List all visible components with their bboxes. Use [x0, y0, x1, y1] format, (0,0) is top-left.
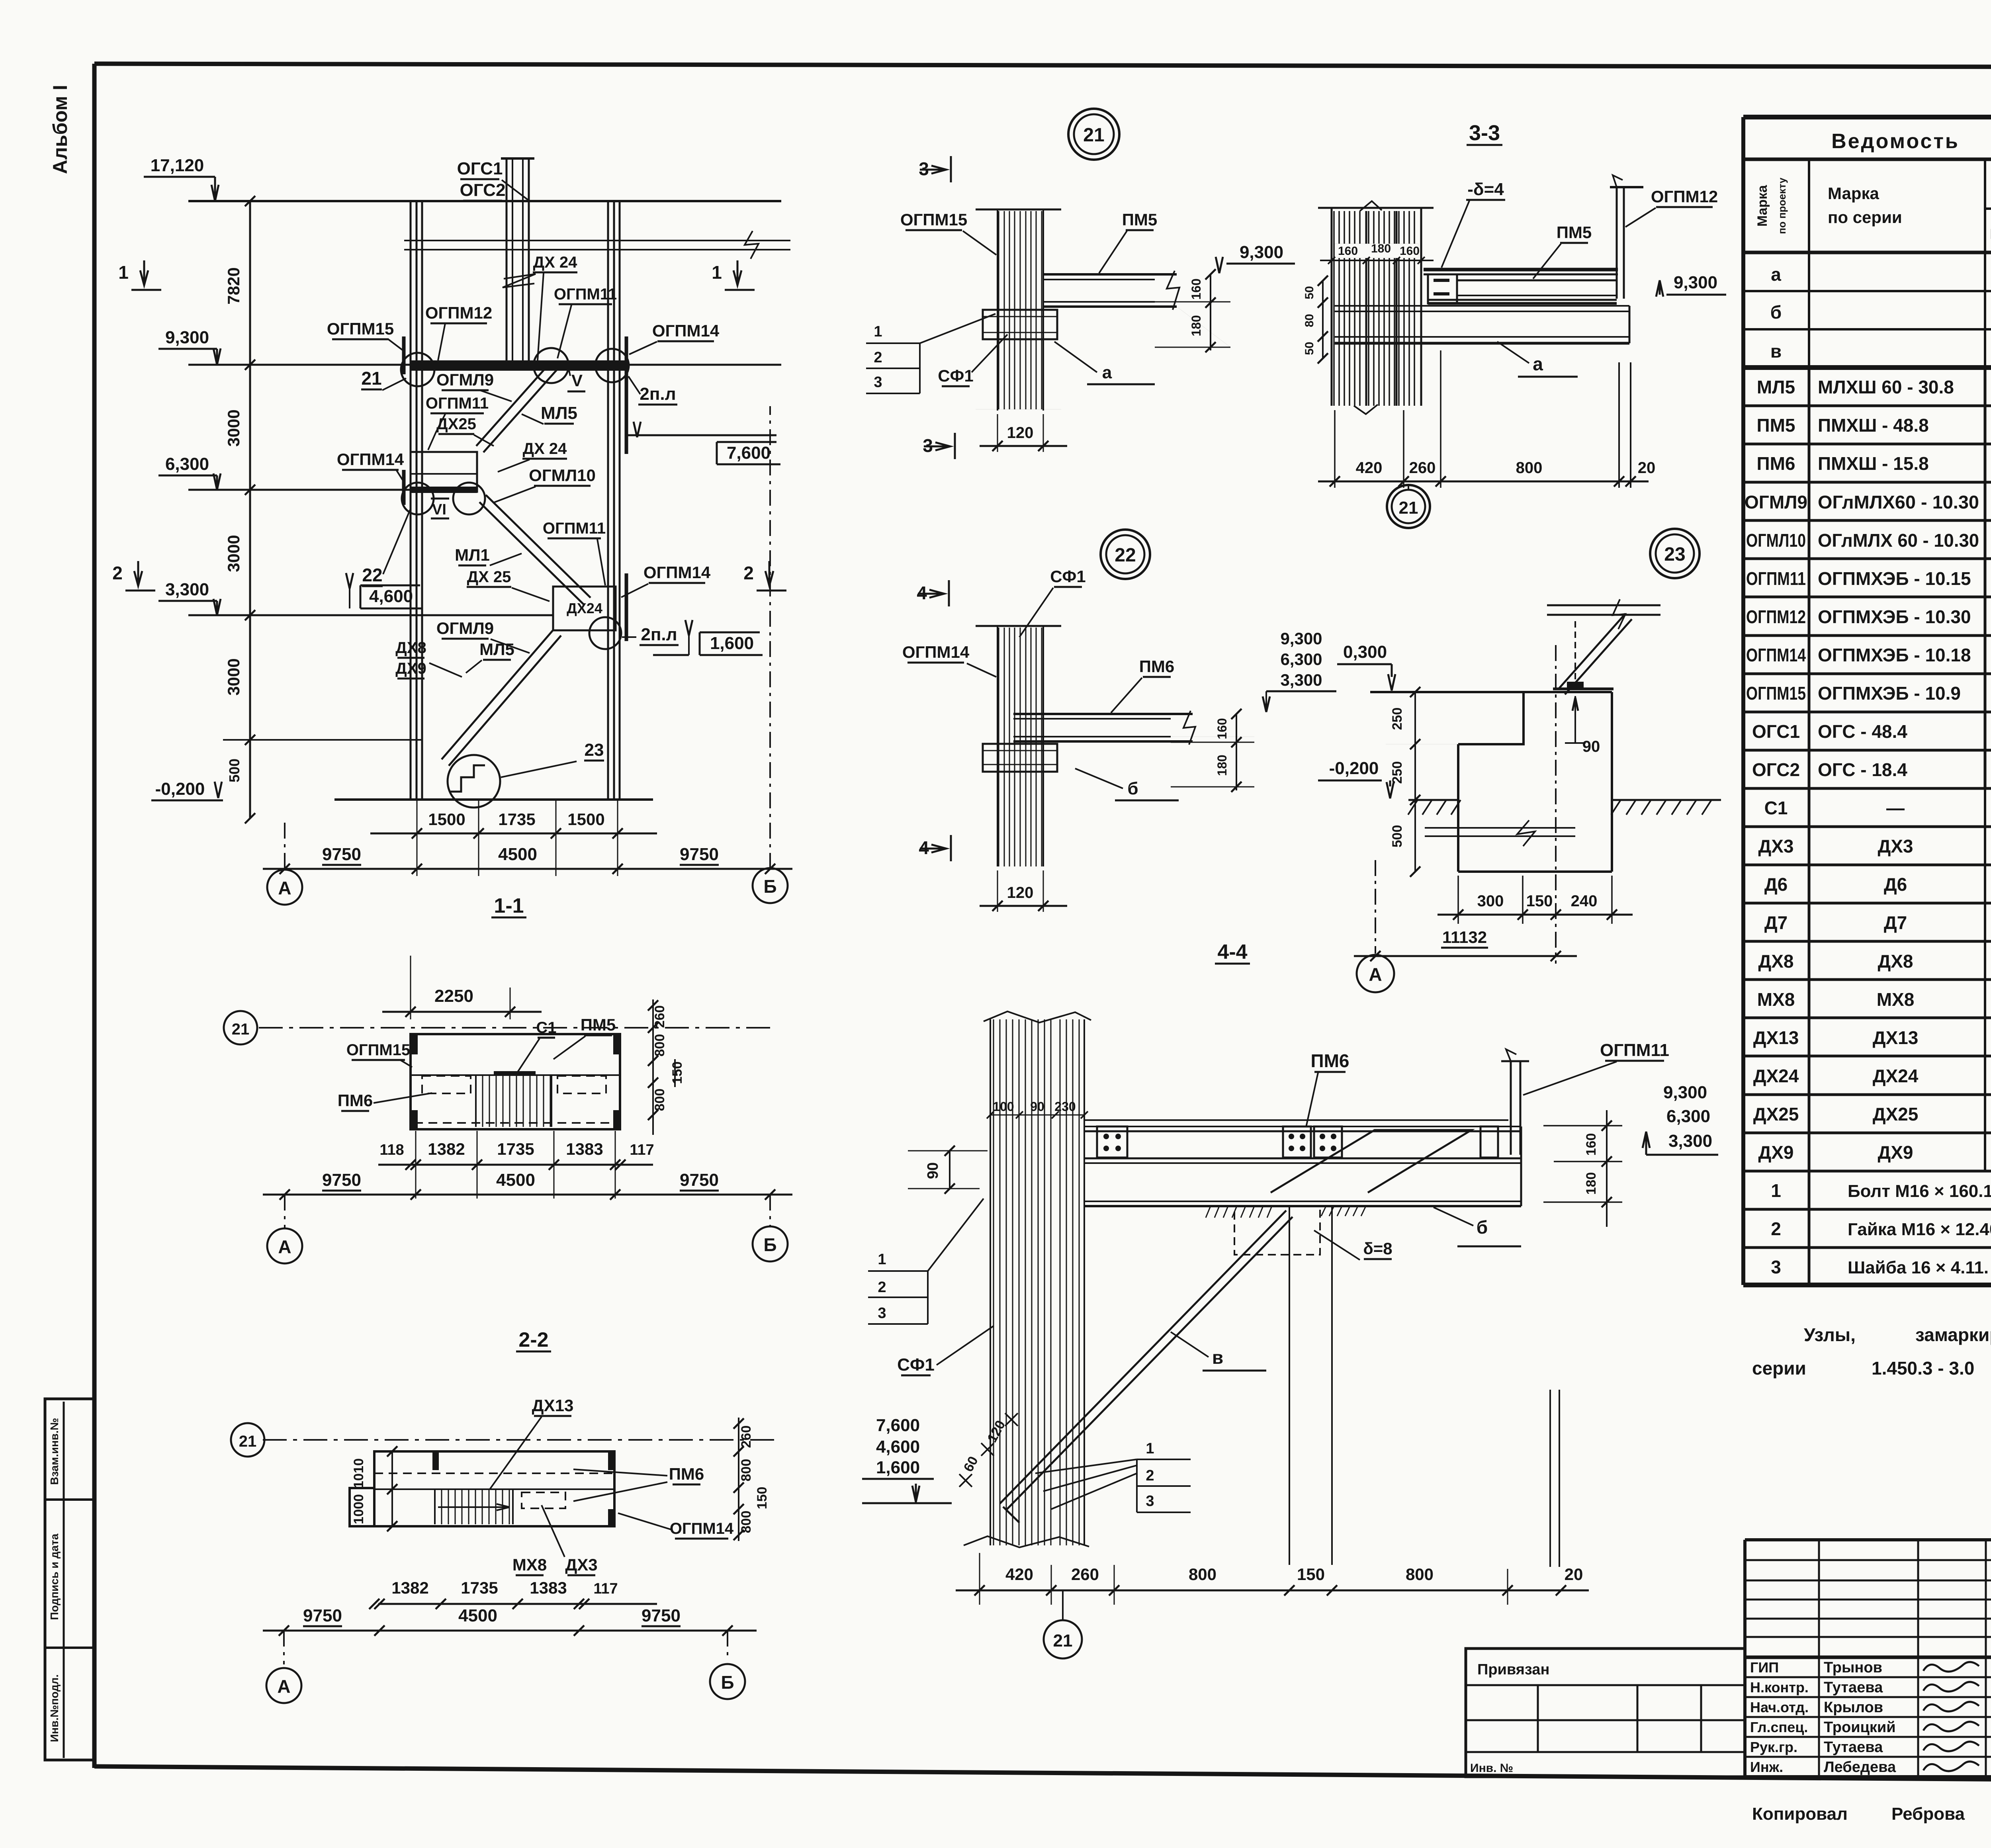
right rotated dims 260/800/150/800 [652, 999, 654, 1135]
svg-text:ОГПМ12: ОГПМ12 [425, 303, 492, 322]
right rotated dims (2-2) [738, 1418, 739, 1541]
right bracket ОГПМ12 (3-3) [1616, 187, 1618, 299]
grid bubble 21 (4-4) [1062, 1590, 1064, 1620]
svg-text:Д6: Д6 [1884, 874, 1907, 895]
svg-text:Привязан: Привязан [1477, 1661, 1549, 1678]
svg-text:Ведомость: Ведомость [1831, 130, 1960, 153]
svg-text:11132: 11132 [1442, 928, 1487, 946]
svg-text:б: б [1477, 1217, 1488, 1238]
svg-text:9,300: 9,300 [1240, 242, 1283, 262]
svg-text:ДХ24: ДХ24 [567, 600, 602, 616]
svg-text:ОГПМ11: ОГПМ11 [543, 520, 606, 537]
svg-text:ДХ9: ДХ9 [1758, 1142, 1793, 1163]
table row ОГПМ14 [1743, 673, 1991, 675]
svg-text:21: 21 [239, 1433, 257, 1450]
svg-text:500: 500 [226, 759, 243, 782]
knot circle 2п.л low [589, 617, 621, 649]
thick divider [1745, 1656, 1991, 1659]
svg-text:ОГПМХЭБ - 10.30: ОГПМХЭБ - 10.30 [1818, 606, 1971, 627]
svg-text:ДХ 24: ДХ 24 [523, 440, 567, 458]
svg-text:ОГлМЛХ60 - 10.30: ОГлМЛХ60 - 10.30 [1818, 492, 1979, 512]
svg-text:50: 50 [1303, 342, 1316, 355]
svg-text:1: 1 [712, 262, 722, 283]
svg-text:ОГПМ15: ОГПМ15 [346, 1041, 410, 1059]
svg-text:7,600: 7,600 [876, 1416, 920, 1435]
svg-text:ДХ25: ДХ25 [1753, 1104, 1799, 1124]
beam ПМ5 (detail 21) [1043, 273, 1177, 276]
svg-text:Гайка М16 × 12.40Х.016: Гайка М16 × 12.40Х.016 ГОСТ 5915-70* [1848, 1220, 1991, 1239]
svg-text:50: 50 [1303, 286, 1316, 299]
svg-text:ОГМЛ9: ОГМЛ9 [436, 619, 494, 638]
svg-text:150: 150 [1297, 1565, 1325, 1584]
svg-text:ДХ25: ДХ25 [1873, 1104, 1919, 1124]
svg-text:1735: 1735 [498, 810, 535, 829]
svg-text:800: 800 [1516, 459, 1543, 477]
column lattice (detail 21) [976, 209, 1061, 211]
grid bubble А [267, 870, 302, 905]
svg-text:ОГМЛ9: ОГМЛ9 [436, 370, 494, 389]
pedestal top level line [1370, 691, 1524, 693]
svg-text:90: 90 [1030, 1099, 1044, 1114]
svg-text:1,600: 1,600 [710, 634, 754, 653]
svg-text:ОГПМ14: ОГПМ14 [337, 450, 404, 469]
svg-text:в: в [1212, 1347, 1223, 1368]
svg-text:3000: 3000 [224, 535, 243, 572]
svg-text:3: 3 [874, 374, 882, 391]
table title row [1743, 158, 1991, 161]
svg-text:ПМ5: ПМ5 [1122, 210, 1158, 229]
svg-text:150: 150 [670, 1062, 685, 1084]
svg-text:МХ8: МХ8 [1877, 989, 1915, 1010]
svg-text:ОГС1: ОГС1 [457, 159, 503, 178]
svg-text:2: 2 [878, 1279, 886, 1296]
svg-text:ДХ8: ДХ8 [395, 639, 426, 657]
svg-text:1383: 1383 [566, 1140, 603, 1158]
svg-text:ОГПМ14: ОГПМ14 [670, 1520, 734, 1537]
svg-text:300: 300 [1477, 892, 1504, 910]
svg-text:2250: 2250 [434, 986, 473, 1006]
svg-text:по серии: по серии [1828, 208, 1902, 227]
svg-text:ПМ6: ПМ6 [1757, 453, 1795, 474]
svg-text:20: 20 [1638, 459, 1656, 477]
svg-text:серии: серии [1752, 1358, 1806, 1379]
svg-text:VI: VI [432, 501, 446, 518]
stair flight МЛ1 (6.3 to 3.3) [479, 502, 584, 605]
svg-text:2: 2 [874, 349, 882, 366]
svg-text:1735: 1735 [497, 1140, 534, 1158]
svg-text:-0,200: -0,200 [155, 779, 205, 799]
svg-text:800: 800 [1406, 1565, 1434, 1584]
table row ПМ6 [1743, 481, 1991, 484]
sheet frame [94, 64, 1991, 68]
svg-text:2п.л: 2п.л [641, 625, 677, 644]
svg-text:ОГлМЛХ 60 - 10.30: ОГлМЛХ 60 - 10.30 [1818, 530, 1979, 551]
svg-text:21: 21 [1083, 125, 1104, 146]
svg-text:ДХ8: ДХ8 [1878, 951, 1913, 972]
svg-text:МЛХШ 60 - 30.8: МЛХШ 60 - 30.8 [1818, 377, 1954, 397]
bracket ОГПМ14 at column B level 9.3 [625, 336, 628, 454]
detail bubble 22 [1101, 530, 1150, 579]
grid line 21 (2-2) [263, 1439, 776, 1441]
svg-text:ДХ9: ДХ9 [395, 660, 426, 677]
concrete pedestal [1458, 692, 1612, 744]
axis dash-dot through pedestal [1555, 645, 1557, 964]
svg-text:замаркированные: замаркированные [1915, 1324, 1991, 1345]
svg-text:а: а [1533, 354, 1543, 374]
svg-text:1: 1 [1771, 1180, 1781, 1201]
bottom dims (2-2) [378, 1603, 657, 1605]
svg-text:1382: 1382 [391, 1578, 428, 1597]
right bracket ОГПМ11 (4-4) [1510, 1061, 1512, 1155]
elevation: level line 17,120 [188, 200, 781, 202]
dims 9750/4500/9750 (2-2) [263, 1630, 757, 1632]
svg-text:21: 21 [361, 368, 381, 389]
svg-text:180: 180 [1189, 315, 1203, 336]
floor line [1084, 1119, 1508, 1121]
svg-text:Лебедева: Лебедева [1824, 1759, 1896, 1776]
svg-text:ДХ13: ДХ13 [1873, 1027, 1919, 1048]
svg-text:420: 420 [1005, 1565, 1033, 1584]
title block outer [1745, 1538, 1991, 1541]
svg-text:ОГПМ11: ОГПМ11 [1600, 1040, 1669, 1060]
svg-text:ОГМЛ9: ОГМЛ9 [1745, 492, 1807, 512]
svg-text:С1: С1 [1764, 798, 1788, 818]
svg-text:9750: 9750 [680, 845, 719, 864]
svg-text:ДХ9: ДХ9 [1878, 1142, 1913, 1163]
table row 2 [1743, 1246, 1991, 1249]
table row ДХ8 [1743, 978, 1991, 981]
svg-text:Марка: Марка [1755, 185, 1770, 227]
svg-text:160: 160 [1189, 278, 1203, 299]
landing at 6,300 [411, 452, 477, 492]
svg-text:Подпись и дата: Подпись и дата [48, 1533, 61, 1620]
svg-text:1500: 1500 [428, 810, 465, 829]
signature rows [1745, 1676, 1991, 1678]
svg-text:1500: 1500 [567, 810, 604, 829]
svg-text:1: 1 [878, 1251, 886, 1268]
svg-text:180: 180 [1584, 1172, 1599, 1195]
svg-text:260: 260 [652, 1005, 667, 1028]
landing plate C1 [494, 1071, 536, 1075]
svg-text:80: 80 [1303, 314, 1316, 327]
svg-text:240: 240 [1571, 892, 1598, 910]
table row ОГПМ11 [1743, 596, 1991, 598]
svg-text:Нач.отд.: Нач.отд. [1750, 1699, 1809, 1715]
stair stringer arriving (d23) [1547, 614, 1660, 616]
svg-text:ОГПМ12: ОГПМ12 [1651, 187, 1718, 206]
hidden beams dashed [422, 1076, 471, 1093]
svg-text:Б: Б [721, 1672, 734, 1693]
svg-text:4,600: 4,600 [369, 587, 413, 606]
svg-text:ОГС2: ОГС2 [1752, 759, 1800, 780]
ground level [334, 798, 653, 801]
svg-text:ДХ 24: ДХ 24 [533, 254, 578, 271]
dim 120 (d21) [997, 414, 998, 452]
collar СФ1 [983, 310, 1057, 339]
column lattice (d22) [976, 625, 1061, 627]
svg-text:ОГПМ14: ОГПМ14 [902, 643, 970, 661]
stair treads (2-2) [434, 1490, 436, 1524]
svg-text:Б: Б [763, 1234, 776, 1255]
svg-text:7820: 7820 [224, 267, 243, 304]
svg-text:ДХ3: ДХ3 [1758, 836, 1793, 857]
svg-text:ОГПМ15: ОГПМ15 [327, 319, 394, 338]
table row ДХ13 [1743, 1055, 1991, 1058]
detail bubble 23 [1650, 529, 1700, 578]
bracket at column B 3.3 [625, 573, 628, 641]
svg-text:2-2: 2-2 [518, 1328, 548, 1351]
stair flight МЛ5 (3.3 to base) [442, 629, 554, 759]
svg-text:2п.л: 2п.л [640, 384, 676, 404]
svg-text:ОГПМХЭБ - 10.18: ОГПМХЭБ - 10.18 [1818, 645, 1971, 665]
svg-text:1: 1 [1146, 1440, 1154, 1457]
svg-text:1: 1 [874, 323, 882, 340]
svg-text:260: 260 [739, 1426, 754, 1448]
svg-text:250: 250 [1390, 761, 1405, 784]
svg-text:180: 180 [1371, 242, 1391, 255]
svg-text:ДХ13: ДХ13 [532, 1396, 574, 1415]
svg-text:МХ8: МХ8 [1757, 989, 1795, 1010]
svg-text:ОГМЛ10: ОГМЛ10 [529, 466, 596, 485]
svg-text:СФ1: СФ1 [1050, 567, 1086, 586]
table row ДХ25 [1743, 1132, 1991, 1134]
svg-text:150: 150 [1526, 892, 1553, 910]
svg-text:А: А [277, 1676, 290, 1697]
tread arrow [438, 1506, 510, 1508]
table row ОГМЛ9 [1743, 519, 1991, 522]
svg-text:Крылов: Крылов [1824, 1699, 1883, 1716]
base plate on pedestal [1553, 688, 1614, 690]
svg-text:ОГПМ14: ОГПМ14 [652, 321, 720, 340]
svg-text:-δ=4: -δ=4 [1467, 180, 1504, 199]
svg-text:4500: 4500 [498, 845, 537, 864]
svg-text:160: 160 [1400, 244, 1420, 258]
landing box ДХ24 at 3,300 [553, 587, 616, 630]
grid bubble А (2-2) [283, 1631, 285, 1664]
svg-text:-0,200: -0,200 [1329, 759, 1379, 778]
plan outline 2-2 [374, 1451, 614, 1526]
svg-text:500: 500 [1390, 825, 1405, 848]
svg-text:21: 21 [1053, 1631, 1073, 1650]
svg-text:260: 260 [1071, 1565, 1099, 1584]
svg-text:ОГПМ14: ОГПМ14 [1746, 645, 1806, 665]
svg-text:4500: 4500 [496, 1170, 535, 1190]
bottom dims 300/150/240 (d23) [1457, 876, 1459, 924]
bolt plates [1097, 1126, 1127, 1158]
table row ДХ9 [1743, 1170, 1991, 1173]
anchor lines below ground [1425, 827, 1575, 829]
svg-text:2: 2 [743, 563, 754, 583]
svg-text:3,300: 3,300 [1668, 1131, 1712, 1151]
svg-text:Инж.: Инж. [1750, 1759, 1783, 1775]
left rotated dims 250/250/500 (d23) [1414, 692, 1416, 872]
svg-text:Трынов: Трынов [1824, 1659, 1882, 1676]
svg-text:Рук.гр.: Рук.гр. [1750, 1739, 1797, 1755]
svg-text:3-3: 3-3 [1469, 121, 1500, 145]
svg-text:160: 160 [1584, 1133, 1599, 1156]
svg-text:150: 150 [755, 1487, 770, 1510]
svg-text:1: 1 [118, 262, 129, 283]
svg-text:800: 800 [739, 1459, 754, 1482]
svg-text:1-1: 1-1 [494, 894, 524, 917]
svg-text:6,300: 6,300 [165, 454, 209, 474]
svg-text:1000: 1000 [351, 1494, 366, 1524]
table row ОГПМ15 [1743, 711, 1991, 714]
grid bubble А (1-1) [267, 1228, 302, 1263]
svg-text:Инв.№подл.: Инв.№подл. [48, 1674, 61, 1742]
svg-text:2: 2 [112, 563, 123, 583]
table row С1 [1743, 825, 1991, 828]
svg-text:1,600: 1,600 [876, 1458, 920, 1477]
dims 160 180 160 (3-3) [1335, 244, 1418, 258]
rows а б в [1743, 290, 1991, 292]
table row ПМ5 [1743, 443, 1991, 446]
svg-text:А: А [278, 878, 291, 898]
column A (left, lattice) [410, 201, 412, 798]
knot circle 22 [402, 483, 434, 514]
svg-text:3: 3 [878, 1305, 886, 1322]
svg-text:ОГС - 18.4: ОГС - 18.4 [1818, 759, 1907, 780]
svg-text:Марка: Марка [1828, 184, 1880, 203]
svg-text:9750: 9750 [642, 1606, 681, 1625]
svg-text:а: а [1102, 363, 1112, 382]
svg-text:120: 120 [1007, 884, 1034, 902]
table row ДХ3 [1743, 864, 1991, 866]
svg-text:100: 100 [993, 1099, 1014, 1114]
level mark 7,600 right [625, 434, 776, 436]
table row ОГС2 [1743, 787, 1991, 790]
table row ОГПМ12 [1743, 634, 1991, 637]
base step detail with circle 23 [448, 755, 500, 808]
svg-text:а: а [1771, 264, 1781, 285]
svg-text:20: 20 [1565, 1565, 1583, 1584]
svg-text:23: 23 [1664, 544, 1685, 565]
svg-text:4-4: 4-4 [1217, 941, 1247, 964]
svg-text:МЛ1: МЛ1 [455, 546, 490, 564]
svg-text:9,300: 9,300 [165, 328, 209, 347]
svg-text:МЛ5: МЛ5 [1757, 377, 1795, 397]
connection blobs (2-2) [432, 1453, 439, 1470]
svg-text:ОГПМХЭБ - 10.9: ОГПМХЭБ - 10.9 [1818, 683, 1961, 704]
svg-text:800: 800 [1189, 1565, 1217, 1584]
svg-text:ОГПМ12: ОГПМ12 [1746, 606, 1806, 627]
svg-text:Д6: Д6 [1764, 874, 1788, 895]
svg-text:А: А [1369, 964, 1382, 985]
svg-text:Инв. №: Инв. № [1470, 1762, 1513, 1775]
svg-text:ОГМЛ10: ОГМЛ10 [1746, 530, 1806, 551]
svg-text:V: V [571, 371, 583, 390]
ПМ6 plate (plan parallelogram) [1271, 1130, 1471, 1193]
column lattice (3-3) [1333, 211, 1335, 406]
column B (right, lattice) [607, 201, 609, 798]
svg-text:Копировал: Копировал [1752, 1804, 1848, 1824]
svg-text:ОГС - 48.4: ОГС - 48.4 [1818, 721, 1907, 742]
svg-text:9,300: 9,300 [1674, 273, 1717, 292]
svg-text:90: 90 [925, 1162, 941, 1179]
svg-text:9750: 9750 [680, 1170, 719, 1190]
mast OGS1/OGS2 [507, 158, 529, 365]
svg-text:Узлы,: Узлы, [1804, 1324, 1856, 1345]
svg-text:б: б [1127, 779, 1138, 798]
svg-text:ОГС2: ОГС2 [460, 180, 506, 200]
svg-text:9750: 9750 [303, 1606, 342, 1625]
detail bubble 21 (below 3-3) [1408, 484, 1409, 490]
svg-text:1.450.3 - 3.0: 1.450.3 - 3.0 [1872, 1358, 1974, 1379]
elevation bottom dims 1500/1735/1500 [370, 833, 657, 835]
svg-text:6,300: 6,300 [1666, 1107, 1710, 1126]
svg-text:Болт М16 × 160.109.40Х.016: Болт М16 × 160.109.40Х.016 ГОСТ 7798-70* [1848, 1181, 1991, 1201]
svg-text:2: 2 [1771, 1218, 1781, 1239]
svg-text:по проекту: по проекту [1776, 178, 1788, 234]
svg-text:17,120: 17,120 [151, 156, 204, 175]
svg-text:90: 90 [1582, 738, 1600, 755]
table row МЛ5 [1743, 405, 1991, 407]
grid axis lines [284, 820, 286, 869]
table row ДХ24 [1743, 1093, 1991, 1096]
svg-text:9,300: 9,300 [1280, 629, 1322, 648]
svg-text:117: 117 [630, 1142, 654, 1158]
svg-text:22: 22 [1115, 545, 1136, 566]
knot circle 21 at column A [401, 353, 434, 386]
svg-text:9750: 9750 [322, 1170, 361, 1190]
detail bubble 21 [1068, 109, 1119, 160]
svg-text:800: 800 [739, 1511, 754, 1533]
svg-text:4,600: 4,600 [876, 1437, 920, 1457]
svg-text:800: 800 [652, 1034, 667, 1057]
svg-text:260: 260 [1409, 459, 1436, 477]
svg-text:С1: С1 [536, 1019, 556, 1036]
svg-text:3,300: 3,300 [165, 580, 209, 599]
margin stamp column [45, 1399, 94, 1760]
svg-text:3000: 3000 [224, 409, 243, 446]
svg-text:118: 118 [379, 1142, 404, 1158]
dims 9750/4500/9750 (1-1) [263, 1194, 792, 1196]
svg-text:1010: 1010 [351, 1458, 366, 1488]
svg-text:3: 3 [1146, 1493, 1154, 1510]
beam ПМ5 (3-3) with top plate [1424, 268, 1618, 272]
svg-text:ОГПМ11: ОГПМ11 [1746, 568, 1806, 589]
svg-text:—: — [1886, 798, 1905, 818]
svg-text:Д7: Д7 [1764, 912, 1788, 933]
svg-text:420: 420 [1356, 459, 1383, 477]
break lines across columns [404, 240, 790, 241]
svg-text:1383: 1383 [530, 1578, 567, 1597]
svg-text:0,300: 0,300 [1343, 642, 1387, 662]
svg-text:Тутаева: Тутаева [1824, 1679, 1883, 1696]
left protruding box МХ8 [350, 1488, 374, 1526]
svg-text:ДХ8: ДХ8 [1758, 951, 1793, 972]
svg-text:МЛ5: МЛ5 [541, 403, 577, 423]
column lattice (4-4) [993, 1019, 994, 1545]
svg-text:СФ1: СФ1 [897, 1355, 935, 1375]
table row 3 [1808, 1248, 1811, 1286]
right edge strip [1549, 1390, 1551, 1567]
svg-text:22: 22 [362, 565, 382, 585]
svg-text:А: А [278, 1236, 291, 1257]
svg-text:4500: 4500 [458, 1606, 497, 1625]
svg-text:120: 120 [1007, 424, 1034, 442]
grid line 21 with bubble [259, 1027, 776, 1029]
svg-text:ПМ6: ПМ6 [1311, 1050, 1349, 1071]
svg-text:ПМХШ - 48.8: ПМХШ - 48.8 [1818, 415, 1929, 436]
svg-text:МЛ5: МЛ5 [479, 640, 514, 659]
elevation bottom dims 9750/4500/9750 [263, 868, 792, 870]
svg-text:2: 2 [1146, 1467, 1154, 1484]
bottom dims 420/260/800/20 (3-3) [1334, 410, 1336, 488]
upper mini grid [1745, 1559, 1991, 1561]
table row ОГМЛ10 [1743, 557, 1991, 560]
plan outline 1-1 [411, 1034, 620, 1129]
